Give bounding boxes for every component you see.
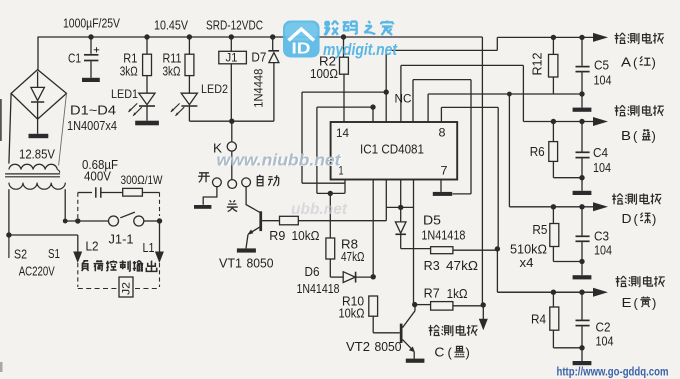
wire: bridge AC left to secondary (9, 93, 11, 163)
svg-text:1kΩ: 1kΩ (447, 287, 468, 301)
label: 检测电极 (E) (616, 276, 627, 287)
svg-text:R11: R11 (163, 52, 182, 66)
svg-text:SRD-12VDC: SRD-12VDC (206, 19, 263, 33)
svg-text:C5: C5 (594, 59, 609, 73)
svg-text:104: 104 (593, 161, 611, 175)
transformer T primary winding (9, 183, 65, 190)
svg-text:1000µF/25V: 1000µF/25V (63, 17, 121, 31)
LED LED1 (146, 76, 148, 94)
scan artifact left edge (0, 99, 2, 141)
wire: R6/C4 bottom junction (552, 161, 554, 177)
svg-text:): ) (652, 212, 656, 227)
svg-text:8: 8 (439, 126, 446, 140)
node: R12 top (551, 35, 556, 40)
svg-text:8050: 8050 (375, 339, 402, 354)
diode D7 1N4448 (272, 37, 274, 51)
svg-text:L1: L1 (143, 241, 155, 255)
relay coil J2 (119, 277, 133, 297)
svg-text:A: A (621, 55, 631, 70)
resistor R7 1k (415, 304, 431, 306)
ground: row E (581, 348, 583, 361)
svg-text:R4: R4 (531, 313, 546, 327)
label: 负荷控制输出 (82, 261, 89, 271)
svg-text:C1: C1 (68, 52, 81, 66)
svg-text:R1: R1 (123, 52, 137, 66)
svg-text:R7: R7 (424, 287, 440, 301)
svg-text:14: 14 (336, 126, 349, 140)
wire: bridge AC right to secondary (59, 93, 67, 165)
svg-text:C2: C2 (596, 321, 611, 335)
svg-text:http://www.go-gddq.com: http://www.go-gddq.com (557, 367, 669, 379)
capacitor 0.68uF snubber (78, 192, 92, 194)
svg-text:D1~D4: D1~D4 (70, 104, 116, 118)
label: 开 (198, 173, 210, 183)
svg-text:3kΩ: 3kΩ (120, 65, 138, 79)
label: 检测电极 (B) (615, 105, 626, 116)
wire: pin9 / row A RC junction line (427, 94, 429, 122)
watermark: 数码之家 (324, 21, 338, 35)
svg-text:R3: R3 (424, 259, 440, 273)
ground: VT2 emitter (406, 359, 425, 363)
switch contact J1-1 (109, 216, 119, 226)
node: R8 top junction (328, 191, 333, 196)
svg-text:7: 7 (441, 164, 448, 178)
svg-text:C4: C4 (593, 146, 608, 160)
diode D5 1N41418 (400, 207, 402, 222)
capacitor C1 1000uF electrolytic (90, 40, 92, 54)
resistor R4 (552, 292, 554, 307)
node: J1 bottom junction (229, 119, 234, 124)
wire: pin2 to D6/R10 (372, 180, 374, 277)
pin 11 NC stub (400, 65, 402, 122)
transformer T secondary winding (9, 164, 57, 169)
svg-text:): ) (652, 55, 656, 70)
capacitor C3 104 (581, 207, 583, 236)
svg-text:NC: NC (395, 94, 412, 106)
svg-text:ubb.net: ubb.net (291, 201, 348, 218)
svg-text:): ) (652, 296, 656, 311)
wire: junction to row E (496, 249, 498, 292)
svg-text:VT1: VT1 (219, 256, 242, 271)
ground: LED1 (135, 121, 159, 126)
svg-text:D: D (622, 211, 632, 226)
svg-text:104: 104 (594, 244, 612, 258)
resistor R2 100 (343, 37, 345, 57)
node: C4 top (579, 119, 584, 124)
label: 自动 (257, 175, 263, 186)
node: S2 junction (6, 232, 11, 237)
terminal L1 output arrow (155, 252, 164, 264)
node: R5 top (551, 204, 556, 209)
wire: primary left lead S2 (8, 189, 10, 235)
node: R7 right junction (481, 302, 486, 307)
svg-text:(: ( (633, 129, 638, 144)
svg-text:47kΩ: 47kΩ (446, 259, 478, 273)
svg-text:B: B (621, 128, 631, 143)
wire: R8 riser (329, 193, 331, 238)
svg-text:mydigit.net: mydigit.net (323, 41, 398, 59)
diode D6 1N41418 (329, 259, 331, 277)
wire: pin5 to VT2 collector (413, 180, 415, 305)
svg-text:J1-1: J1-1 (109, 233, 134, 247)
transistor VT2 8050 (400, 324, 403, 343)
node: R3/R5/pin8 junction (495, 246, 500, 251)
wire: pin3 riser (385, 180, 387, 221)
node: R1 rail junction (144, 34, 149, 39)
wire: electrode D line (509, 206, 593, 208)
wire: pin13 net (372, 107, 374, 122)
bridge rectifier D1~D4 (37, 37, 39, 70)
resistor R6 (552, 122, 554, 142)
svg-text:10kΩ: 10kΩ (339, 307, 365, 321)
wire: V1 rail to electrode C (481, 37, 483, 305)
svg-text:(: ( (634, 212, 639, 227)
ground: row D (581, 262, 583, 276)
op-amp/gate IC1 CD4081 (331, 122, 458, 180)
watermark: mydigit logo (283, 21, 320, 58)
wire: R12/C5 bottom junction (552, 77, 554, 94)
wire: pin4 riser (400, 180, 402, 208)
wire: pin10 loop (412, 80, 414, 122)
svg-text:R12: R12 (531, 52, 545, 75)
LED1 emission arrows (129, 103, 138, 111)
resistor R10 10k (369, 296, 378, 316)
ground: row B (581, 178, 583, 191)
svg-text:3kΩ: 3kΩ (163, 65, 181, 79)
wire: dashed snubber box right (159, 193, 161, 217)
resistor R12 (552, 37, 554, 54)
svg-text:R6: R6 (530, 145, 545, 159)
ground: IC pin7 (440, 180, 442, 192)
terminal: electrode B arrow (593, 117, 608, 126)
svg-text:47kΩ: 47kΩ (341, 250, 365, 264)
svg-text:104: 104 (594, 74, 612, 88)
node: C2 top (579, 290, 584, 295)
wire: S line to L2 (9, 234, 78, 236)
svg-text:D6: D6 (305, 265, 320, 279)
svg-text:12.85V: 12.85V (19, 148, 56, 162)
resistor R1 3k (146, 37, 148, 54)
ground: row A (581, 94, 583, 108)
label: 检测电极 (C) (429, 325, 440, 336)
svg-text:C3: C3 (594, 230, 609, 244)
svg-text:1N4448: 1N4448 (252, 68, 266, 107)
svg-text:510kΩ: 510kΩ (510, 243, 547, 257)
wire: pin1 stubs (344, 180, 346, 194)
svg-text:D5: D5 (423, 214, 441, 228)
resistor 300ohm/1W (123, 188, 143, 196)
wire: R9 to IC pin3 (298, 220, 386, 222)
svg-text:1N41418: 1N41418 (297, 282, 340, 296)
node: VT2 collector / R7 left (412, 302, 417, 307)
svg-text:J2: J2 (121, 282, 133, 295)
svg-text:D7: D7 (251, 51, 266, 65)
svg-text:10.45V: 10.45V (154, 19, 189, 33)
wire: dashed box bottom (78, 288, 117, 290)
svg-text:): ) (652, 129, 656, 144)
ground: switch 开 (203, 187, 217, 205)
transistor VT1 8050 (246, 187, 260, 213)
svg-text:L2: L2 (86, 240, 99, 254)
capacitor C5 104 (581, 37, 583, 65)
svg-text:LED1: LED1 (111, 87, 138, 101)
label: 检测电极 (D) (612, 194, 623, 205)
wire: R4/C2 bottom junction (552, 330, 554, 348)
wire: pin11 to row B feed (401, 64, 524, 66)
wire: L1 lead (159, 221, 161, 252)
svg-text:1N41418: 1N41418 (421, 229, 465, 243)
ground: VT1 emitter (237, 248, 256, 252)
svg-text:(: ( (448, 345, 453, 360)
LED LED2 (188, 76, 190, 94)
terminal: electrode A arrow (593, 33, 608, 42)
wire: R5/C3 bottom junction (552, 247, 554, 262)
terminal L2 output arrow (73, 252, 82, 264)
node: J1 rail junction (229, 34, 234, 39)
label: 关 (227, 200, 238, 211)
svg-text:VT2: VT2 (346, 339, 370, 354)
terminal K (231, 121, 233, 142)
LED2 emission arrows (171, 103, 180, 111)
wire: electrode E line (497, 291, 593, 293)
node: R4 top (551, 290, 556, 295)
node: C1 rail junction (88, 34, 93, 39)
svg-text:(: ( (634, 296, 639, 311)
wire: dashed snubber box left (77, 193, 79, 219)
wire: primary right lead S1 (64, 189, 66, 221)
svg-text:R9: R9 (269, 229, 285, 243)
svg-text:AC220V: AC220V (19, 265, 56, 279)
svg-text:LED2: LED2 (201, 82, 228, 96)
relay coil J1 (230, 37, 232, 51)
node: R2 rail junction (341, 34, 346, 39)
label: 检测电极 (A) (615, 33, 626, 44)
svg-text:ID: ID (292, 41, 311, 58)
svg-text:www.niubb.net: www.niubb.net (217, 152, 343, 170)
svg-text:1N4007x4: 1N4007x4 (67, 119, 117, 133)
svg-text:10kΩ: 10kΩ (292, 229, 320, 243)
ground: C1 (82, 78, 100, 82)
svg-text:C: C (434, 345, 444, 360)
svg-text:IC1 CD4081: IC1 CD4081 (360, 143, 424, 157)
node: D7 rail junction (270, 34, 275, 39)
ground: bridge output (37, 119, 39, 134)
svg-text:): ) (466, 345, 470, 360)
svg-text:100Ω: 100Ω (310, 67, 338, 81)
wire: +12V top rail (38, 36, 482, 38)
node: snubber left tap (75, 218, 80, 223)
terminal: electrode C arrow (479, 319, 488, 331)
node: D6/R10/pin2 junction (371, 274, 376, 279)
resistor R9 10k (280, 216, 299, 225)
resistor R8 47k (326, 238, 335, 259)
wire: row D feed (508, 94, 510, 207)
svg-text:S2: S2 (14, 248, 27, 262)
transformer core (5, 173, 60, 175)
node: R6 top (551, 119, 556, 124)
capacitor C2 104 (581, 292, 583, 319)
node: primary right / contact line (63, 219, 68, 224)
terminal: electrode D arrow (593, 202, 608, 211)
wire: electrode A line (497, 36, 593, 38)
svg-text:(: ( (633, 55, 638, 70)
terminal: electrode E arrow (593, 288, 608, 297)
node: C5 top (579, 35, 584, 40)
wire: electrode B line (523, 121, 593, 123)
svg-text:S1: S1 (48, 247, 60, 261)
node: contact right / L1 tap (157, 218, 162, 223)
svg-text:300Ω/1W: 300Ω/1W (121, 173, 164, 187)
resistor R5 (552, 207, 554, 224)
wire: pin8 riser (440, 107, 442, 122)
svg-text:400V: 400V (84, 170, 112, 184)
wire: pin12/pin1 net (385, 50, 387, 122)
resistor R3 47k (431, 247, 453, 254)
wire: D5 junction link (386, 206, 413, 208)
svg-text:R5: R5 (532, 223, 547, 237)
node: D5 top junction (398, 205, 403, 210)
svg-text:x4: x4 (520, 256, 534, 270)
node: C3 top (579, 204, 584, 209)
node: R11 rail junction (187, 34, 192, 39)
wire: contact line (65, 220, 108, 222)
svg-text:8050: 8050 (247, 256, 274, 271)
node: row D feed tap (507, 92, 512, 97)
resistor R11 3k (188, 37, 190, 54)
svg-text:E: E (622, 295, 632, 310)
wire: LED2/J1/D7 common (189, 120, 274, 122)
switch 开/关/自动 (231, 151, 233, 180)
svg-text:104: 104 (596, 335, 614, 349)
capacitor C4 104 (581, 122, 583, 152)
svg-text:J1: J1 (226, 53, 238, 65)
